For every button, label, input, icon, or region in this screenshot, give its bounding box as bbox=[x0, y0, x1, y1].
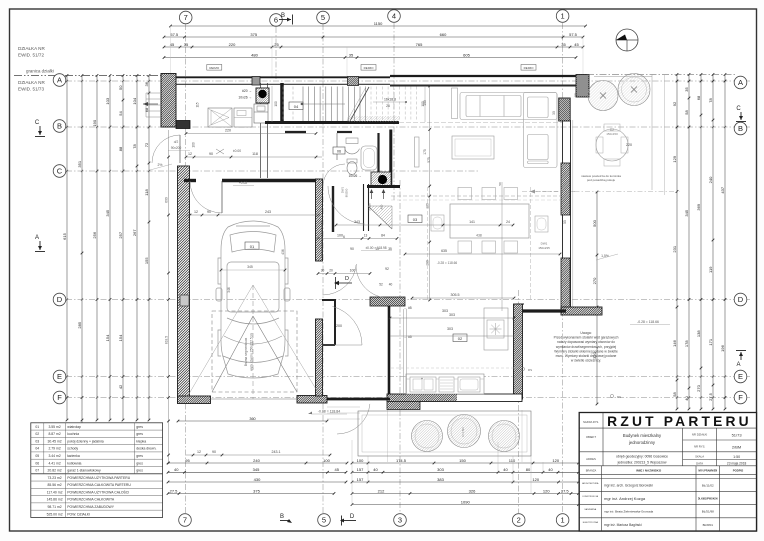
svg-text:35: 35 bbox=[388, 247, 392, 251]
tree right 1 bbox=[588, 81, 618, 111]
svg-text:57.5: 57.5 bbox=[170, 32, 179, 37]
grid bubble E left bbox=[53, 370, 66, 383]
svg-text:D: D bbox=[350, 514, 355, 520]
svg-text:345: 345 bbox=[105, 209, 110, 216]
dim 12 90 243 row below garage bbox=[186, 454, 330, 456]
svg-text:68: 68 bbox=[144, 107, 149, 112]
svg-text:90: 90 bbox=[350, 247, 354, 251]
svg-text:72: 72 bbox=[144, 142, 149, 147]
svg-text:58: 58 bbox=[672, 392, 677, 397]
wall below fireplace y186 bbox=[367, 185, 400, 188]
svg-text:6: 6 bbox=[343, 235, 345, 239]
svg-text:27.5: 27.5 bbox=[561, 488, 570, 493]
svg-text:175: 175 bbox=[423, 149, 427, 155]
svg-text:190: 190 bbox=[92, 119, 97, 126]
svg-text:150x235: 150x235 bbox=[538, 246, 550, 250]
svg-text:157: 157 bbox=[357, 467, 364, 472]
svg-text:#20: #20 bbox=[379, 204, 383, 209]
svg-text:27.5: 27.5 bbox=[708, 392, 713, 401]
axis line C bbox=[66, 170, 480, 172]
svg-text:2/BM: 2/BM bbox=[732, 445, 741, 450]
axis line 1 bbox=[562, 23, 564, 513]
bathroom toilet bbox=[347, 162, 357, 175]
svg-text:120: 120 bbox=[543, 488, 550, 493]
svg-text:E: E bbox=[738, 372, 743, 381]
svg-text:EWID. 51/72: EWID. 51/72 bbox=[18, 53, 44, 58]
boiler room label box 06 bbox=[333, 147, 345, 154]
coffee table bbox=[452, 136, 494, 159]
svg-text:1: 1 bbox=[561, 12, 565, 21]
top wall window pier at axis 5 bbox=[348, 77, 359, 86]
svg-text:KONSTRUKCJA: KONSTRUKCJA bbox=[583, 495, 599, 498]
svg-text:196: 196 bbox=[720, 344, 725, 351]
svg-text:369: 369 bbox=[696, 203, 701, 210]
svg-text:51/73: 51/73 bbox=[732, 433, 743, 438]
top dimension row 57.5 375 660 bbox=[164, 36, 583, 38]
svg-text:351: 351 bbox=[77, 160, 82, 167]
svg-text:20.82 m2: 20.82 m2 bbox=[48, 469, 62, 473]
right terrace dashed line y191 bbox=[522, 191, 680, 193]
right exterior wall with windows bbox=[562, 120, 564, 311]
svg-text:RS: RS bbox=[528, 368, 532, 372]
svg-text:119: 119 bbox=[708, 266, 713, 273]
svg-text:90: 90 bbox=[209, 152, 213, 156]
right wall solid pier 1 bbox=[561, 163, 570, 215]
svg-text:345: 345 bbox=[684, 209, 689, 216]
svg-text:257: 257 bbox=[118, 231, 123, 238]
svg-text:4.41 m2: 4.41 m2 bbox=[48, 461, 60, 465]
svg-text:303: 303 bbox=[449, 313, 455, 317]
svg-text:należy dopasować wymiary otwor: należy dopasować wymiary otworów do bbox=[557, 340, 615, 344]
svg-text:NR RYS.: NR RYS. bbox=[694, 445, 706, 449]
svg-text:deska drewn.: deska drewn. bbox=[136, 447, 156, 451]
svg-text:154: 154 bbox=[118, 334, 123, 341]
svg-text:ARCHITEKTURA: ARCHITEKTURA bbox=[582, 482, 599, 485]
svg-text:345: 345 bbox=[247, 265, 253, 269]
kitchen unit below chimney bbox=[254, 104, 268, 123]
svg-text:granica działki: granica działki bbox=[26, 69, 54, 74]
axis line E bbox=[66, 376, 750, 378]
svg-text:303: 303 bbox=[442, 309, 448, 313]
svg-text:100: 100 bbox=[357, 458, 364, 463]
svg-text:436: 436 bbox=[281, 249, 285, 255]
wardrobe with X bbox=[208, 108, 232, 127]
svg-text:mgr inż. Beata Zieleniewska-Gr: mgr inż. Beata Zieleniewska-Gromada bbox=[604, 510, 654, 514]
partition wall x263 kitchen-hall bbox=[260, 83, 262, 178]
svg-text:90x200: 90x200 bbox=[171, 146, 182, 150]
grid bubble F left bbox=[53, 391, 66, 404]
axis line 6 bbox=[275, 27, 277, 80]
svg-text:DZIAŁKA NR: DZIAŁKA NR bbox=[18, 46, 45, 51]
svg-text:765: 765 bbox=[416, 42, 423, 47]
right wall solid pier 2 bbox=[561, 258, 570, 311]
terrace bottom outline bbox=[358, 411, 531, 456]
terrace bush 1 bbox=[412, 421, 443, 452]
living room label box 03 bbox=[408, 215, 422, 223]
svg-text:← #5: ← #5 bbox=[404, 306, 412, 310]
svg-text:06: 06 bbox=[35, 461, 39, 465]
svg-text:145.86 m2: 145.86 m2 bbox=[47, 498, 63, 502]
svg-text:7: 7 bbox=[183, 516, 187, 525]
bottom dimension row 157 40 303 40 80 40 bbox=[352, 471, 579, 473]
svg-text:1090: 1090 bbox=[461, 499, 471, 504]
svg-text:54: 54 bbox=[118, 111, 123, 116]
svg-text:78: 78 bbox=[132, 144, 137, 149]
RS outlet mark 1 bbox=[521, 367, 524, 370]
tree right 2 bbox=[618, 74, 650, 106]
svg-text:schody: schody bbox=[67, 447, 78, 451]
svg-text:C: C bbox=[35, 120, 40, 126]
fireplace black circle bbox=[378, 175, 387, 184]
bathroom right wall x390 bbox=[389, 130, 392, 187]
svg-text:5: 5 bbox=[322, 516, 326, 525]
section D marker in plan bbox=[337, 282, 352, 284]
svg-text:605: 605 bbox=[463, 52, 470, 57]
svg-text:-0.28 = 118.66: -0.28 = 118.66 bbox=[437, 261, 458, 265]
kitchen counter left edge bbox=[403, 309, 405, 394]
garage inner dims 345 346 bbox=[221, 269, 285, 271]
svg-text:6: 6 bbox=[274, 16, 278, 25]
grid bubble 6 top bbox=[270, 14, 283, 27]
vertical dim line x502 living bbox=[501, 182, 503, 311]
svg-text:68: 68 bbox=[696, 95, 701, 100]
svg-text:375: 375 bbox=[250, 32, 257, 37]
dining side chair right bbox=[535, 216, 548, 232]
right dimension line x725 bbox=[724, 75, 726, 410]
kitchen dashed work line bbox=[391, 367, 514, 369]
garage right exterior wall lower bbox=[316, 319, 323, 396]
dim 12 90 243 row above car bbox=[186, 214, 320, 216]
svg-text:220: 220 bbox=[626, 143, 632, 147]
hall-kitchen wall x336 bbox=[332, 186, 334, 232]
svg-text:231: 231 bbox=[672, 245, 677, 252]
svg-text:480: 480 bbox=[251, 52, 258, 57]
svg-text:4: 4 bbox=[392, 12, 396, 21]
bottom dimension row 157 383 120 bbox=[352, 481, 579, 483]
grid bubble 5 top bbox=[317, 11, 330, 24]
svg-text:12: 12 bbox=[188, 152, 192, 156]
ceiling opening dashed verticals bbox=[426, 187, 428, 300]
svg-text:muru. Wymiary stolarki drzwiow: muru. Wymiary stolarki drzwiowej podane bbox=[556, 354, 617, 358]
svg-text:B: B bbox=[281, 13, 285, 19]
svg-text:40: 40 bbox=[389, 283, 393, 287]
svg-text:NR DZIAŁKI: NR DZIAŁKI bbox=[692, 433, 708, 437]
svg-text:154: 154 bbox=[105, 334, 110, 341]
svg-text:+0.02: +0.02 bbox=[239, 181, 248, 185]
svg-text:90: 90 bbox=[207, 210, 211, 214]
bottom dimension row 1090 bbox=[352, 504, 579, 506]
hall dim row 100 13 84 bbox=[318, 238, 397, 240]
wc partition details bbox=[336, 133, 338, 160]
axis line B bbox=[66, 126, 750, 128]
wall below stairs bbox=[265, 121, 399, 124]
grid bubble 1 bottom bbox=[556, 514, 569, 527]
svg-text:120: 120 bbox=[426, 203, 430, 209]
svg-text:303: 303 bbox=[437, 467, 444, 472]
svg-text:A: A bbox=[57, 76, 62, 85]
bottom dimension row left 430 bbox=[168, 481, 346, 483]
svg-text:100: 100 bbox=[323, 458, 330, 463]
level mark X hall bbox=[216, 149, 224, 154]
kitchen right exterior wall bbox=[514, 304, 523, 399]
bathroom top wall bbox=[285, 131, 306, 133]
svg-text:92: 92 bbox=[385, 267, 389, 271]
svg-text:E: E bbox=[57, 372, 62, 381]
svg-text:118: 118 bbox=[144, 189, 149, 196]
living-kitchen step wall bbox=[520, 309, 566, 312]
svg-text:02: 02 bbox=[458, 336, 463, 341]
svg-text:B: B bbox=[280, 514, 284, 520]
kitchen bottom-left corner block bbox=[387, 402, 420, 410]
svg-text:78: 78 bbox=[708, 98, 713, 103]
svg-text:360: 360 bbox=[249, 417, 255, 421]
svg-text:A: A bbox=[35, 235, 39, 241]
kitchen doorway arc bbox=[356, 265, 389, 298]
svg-text:635: 635 bbox=[441, 249, 447, 253]
svg-text:40: 40 bbox=[373, 467, 378, 472]
svg-text:1:50: 1:50 bbox=[733, 455, 740, 459]
svg-text:212: 212 bbox=[378, 488, 385, 493]
svg-text:-0.08 = 118.84: -0.08 = 118.84 bbox=[318, 410, 340, 414]
svg-text:C: C bbox=[736, 106, 741, 112]
svg-text:PODPIS: PODPIS bbox=[733, 469, 744, 473]
bottom dimension row left 40 345 45 bbox=[168, 471, 346, 473]
svg-text:30: 30 bbox=[321, 269, 325, 273]
svg-text:438: 438 bbox=[476, 234, 482, 238]
living room bottom-right wall bbox=[561, 307, 602, 315]
window label REIMO 1 bbox=[207, 65, 222, 71]
svg-text:270: 270 bbox=[592, 277, 597, 284]
svg-text:POWIERZCHNIA CAŁKOWITA: POWIERZCHNIA CAŁKOWITA bbox=[67, 498, 115, 502]
svg-text:mgr inż. arch. Grzegorz Borows: mgr inż. arch. Grzegorz Borowski bbox=[604, 484, 653, 488]
svg-text:13: 13 bbox=[375, 247, 379, 251]
svg-text:3.55 m2: 3.55 m2 bbox=[48, 425, 60, 429]
hall outside steps bbox=[327, 406, 360, 408]
vertical dim line x168 garage left bbox=[168, 130, 170, 463]
svg-text:100: 100 bbox=[337, 234, 343, 238]
grid bubble C left bbox=[53, 165, 66, 178]
svg-text:ADRES: ADRES bbox=[586, 457, 596, 461]
garage bottom exterior wall bbox=[178, 396, 211, 404]
window label REIMO 3 bbox=[521, 65, 536, 71]
svg-text:95: 95 bbox=[185, 458, 190, 463]
svg-text:łazienka: łazienka bbox=[67, 454, 80, 458]
svg-text:40: 40 bbox=[548, 467, 553, 472]
svg-text:DATA: DATA bbox=[696, 462, 703, 466]
svg-text:12: 12 bbox=[197, 450, 201, 454]
terrace bush 2 bbox=[448, 415, 481, 448]
svg-text:3.44 m2: 3.44 m2 bbox=[48, 454, 60, 458]
svg-text:100: 100 bbox=[191, 142, 195, 148]
svg-text:303: 303 bbox=[447, 327, 453, 331]
svg-text:150: 150 bbox=[459, 458, 466, 463]
axis line F bbox=[66, 397, 750, 399]
living room corner sofa bbox=[460, 93, 557, 168]
svg-text:NAZWA RYS.: NAZWA RYS. bbox=[583, 420, 599, 424]
svg-text:100: 100 bbox=[350, 269, 356, 273]
kitchen island bbox=[484, 308, 508, 350]
kitchen upper cabinets dashed bbox=[391, 195, 560, 197]
room schedule table bbox=[31, 423, 163, 518]
svg-text:07: 07 bbox=[35, 469, 39, 473]
svg-text:85.56 m2: 85.56 m2 bbox=[48, 483, 62, 487]
dims right of dining 635 bbox=[405, 253, 560, 255]
svg-text:171: 171 bbox=[708, 338, 713, 345]
svg-text:285: 285 bbox=[77, 321, 82, 328]
terrace right side outline bbox=[587, 74, 737, 76]
svg-text:88: 88 bbox=[118, 146, 123, 151]
grid bubble D left bbox=[53, 293, 66, 306]
svg-text:IMIĘ I NAZWISKO: IMIĘ I NAZWISKO bbox=[636, 469, 662, 473]
svg-text:SANITARNA: SANITARNA bbox=[584, 508, 596, 511]
grid bubble 7 bottom bbox=[179, 514, 192, 527]
svg-text:NR UPRAWNIEŃ: NR UPRAWNIEŃ bbox=[698, 470, 717, 473]
svg-text:24: 24 bbox=[506, 220, 510, 224]
svg-text:383: 383 bbox=[437, 477, 444, 482]
svg-text:157: 157 bbox=[357, 477, 364, 482]
svg-text:120: 120 bbox=[552, 458, 559, 463]
axis line 2 bbox=[518, 290, 520, 513]
svg-text:A: A bbox=[738, 78, 743, 87]
garage parking envelope dashed bbox=[212, 311, 297, 392]
svg-text:01: 01 bbox=[250, 244, 255, 249]
fridge snowflake bbox=[487, 320, 504, 338]
grid bubble B left bbox=[53, 120, 66, 133]
svg-text:DL/0982/PWOK/06: DL/0982/PWOK/06 bbox=[698, 499, 719, 501]
svg-text:RZUT PARTERU: RZUT PARTERU bbox=[607, 414, 752, 429]
top dimension row 480 35 605 bbox=[164, 57, 576, 59]
svg-text:kuchnia: kuchnia bbox=[67, 432, 79, 436]
center dims 343 141 6 24 26 bbox=[327, 229, 513, 231]
grid bubble 1 top bbox=[556, 10, 569, 23]
svg-text:-0.28 = 118.66: -0.28 = 118.66 bbox=[637, 320, 659, 324]
grid bubble 2 bottom bbox=[512, 514, 525, 527]
svg-text:40: 40 bbox=[174, 467, 179, 472]
svg-text:58: 58 bbox=[684, 110, 689, 115]
svg-text:w świetle ościeżnicy.: w świetle ościeżnicy. bbox=[571, 359, 601, 363]
svg-text:35: 35 bbox=[349, 52, 354, 57]
svg-text:ELEKTRYCZNA: ELEKTRYCZNA bbox=[583, 521, 599, 524]
svg-text:27.5: 27.5 bbox=[170, 488, 179, 493]
kitchen left wall x390 lower bbox=[388, 300, 391, 394]
grid bubble 4 top bbox=[388, 10, 401, 23]
svg-text:F: F bbox=[57, 393, 62, 402]
svg-text:klepka: klepka bbox=[136, 439, 146, 443]
dining chairs bottom row bbox=[458, 241, 472, 253]
svg-text:104: 104 bbox=[132, 97, 137, 104]
svg-text:343: 343 bbox=[354, 220, 360, 224]
svg-text:220: 220 bbox=[225, 129, 231, 133]
dims kitchen 305.5 row2 bbox=[390, 335, 514, 337]
entry steps outside bbox=[146, 92, 161, 94]
svg-text:garaż 1-stanowiskowy: garaż 1-stanowiskowy bbox=[67, 469, 101, 473]
left dimension line x82 bbox=[81, 76, 83, 513]
svg-text:obręb geodezyjny: 0096 Gosowic: obręb geodezyjny: 0096 Gosowice bbox=[616, 455, 668, 459]
hall cabinet bbox=[234, 108, 252, 127]
chimney black circle bbox=[258, 90, 266, 98]
svg-text:05: 05 bbox=[35, 454, 39, 458]
garage door swing triangle bbox=[212, 316, 253, 392]
hall dim row 30 20 100 bbox=[318, 273, 370, 275]
svg-text:wymiarów drzwi/segmentowych, p: wymiarów drzwi/segmentowych, przyjętej bbox=[556, 345, 617, 349]
grid bubble A right bbox=[734, 76, 747, 89]
car body bbox=[216, 221, 290, 378]
garage door from hall arc bbox=[190, 181, 222, 213]
left dimension line x67 bbox=[66, 76, 68, 421]
garage left exterior wall bbox=[178, 166, 190, 403]
svg-text:REIMO: REIMO bbox=[364, 66, 375, 70]
svg-text:wym. otworu 250x212.5cm: wym. otworu 250x212.5cm bbox=[250, 333, 254, 371]
svg-text:30.45 m2: 30.45 m2 bbox=[48, 439, 62, 443]
svg-text:40: 40 bbox=[503, 467, 508, 472]
fireplace air arrow dashed bbox=[530, 191, 575, 193]
left band axis crossing ticks bbox=[66, 74, 68, 76]
svg-text:600: 600 bbox=[164, 197, 168, 203]
svg-text:90: 90 bbox=[212, 450, 216, 454]
svg-text:55: 55 bbox=[563, 220, 567, 224]
svg-text:jednorodzinny: jednorodzinny bbox=[628, 440, 656, 445]
left dimension line x123 bbox=[122, 76, 124, 421]
entry arrow bbox=[143, 103, 158, 105]
top exterior wall left part bbox=[161, 76, 390, 78]
grid bubble A left bbox=[53, 74, 66, 87]
north arrow bbox=[616, 29, 638, 51]
svg-text:180: 180 bbox=[426, 260, 430, 266]
hall terrace door arc bbox=[332, 306, 362, 345]
svg-text:01: 01 bbox=[35, 425, 39, 429]
garage left wall pilaster box bbox=[180, 295, 189, 306]
fireplace hatch box bbox=[371, 172, 391, 187]
dining side chair left bbox=[431, 215, 444, 231]
svg-text:pod posadzką pokoju: pod posadzką pokoju bbox=[587, 178, 616, 182]
svg-text:Przed wykonaniem stolarki wrót: Przed wykonaniem stolarki wrót garażowyc… bbox=[554, 336, 619, 340]
svg-text:7: 7 bbox=[184, 13, 188, 22]
svg-text:103: 103 bbox=[105, 97, 110, 104]
axis line 3 bbox=[399, 180, 401, 513]
kotlownia door arc bbox=[323, 264, 357, 295]
axis line 7 bbox=[185, 24, 187, 513]
svg-text:100: 100 bbox=[423, 100, 427, 106]
kitchen dishwasher lined bbox=[439, 377, 454, 392]
svg-text:220: 220 bbox=[229, 42, 236, 47]
svg-text:kotłownia: kotłownia bbox=[67, 461, 81, 465]
porch corner dark block bbox=[176, 121, 190, 129]
svg-text:03: 03 bbox=[413, 217, 418, 222]
kitchen sink bbox=[410, 377, 436, 392]
hall lower walls bbox=[322, 299, 336, 301]
svg-text:2: 2 bbox=[517, 516, 521, 525]
kitchen counter bottom bbox=[406, 374, 484, 394]
grid bubble 5 bottom bbox=[318, 514, 331, 527]
svg-text:POWIERZCHNIA UŻYTKOWA CAŁOŚCI: POWIERZCHNIA UŻYTKOWA CAŁOŚCI bbox=[67, 489, 129, 494]
svg-text:243.1: 243.1 bbox=[272, 450, 281, 454]
svg-text:wiatrołap: wiatrołap bbox=[67, 425, 81, 429]
svg-text:gres: gres bbox=[136, 425, 143, 429]
svg-text:03: 03 bbox=[35, 439, 39, 443]
svg-text:2.79 m2: 2.79 m2 bbox=[48, 447, 60, 451]
svg-text:40: 40 bbox=[684, 396, 689, 401]
svg-text:240: 240 bbox=[253, 458, 260, 463]
staircase walk line bbox=[300, 103, 345, 105]
svg-text:D: D bbox=[57, 295, 63, 304]
svg-text:141: 141 bbox=[469, 220, 475, 224]
svg-text:Uwaga:: Uwaga: bbox=[580, 331, 591, 335]
svg-text:1150: 1150 bbox=[374, 21, 383, 26]
svg-text:POW. DZIAŁKI: POW. DZIAŁKI bbox=[67, 512, 90, 516]
svg-text:42: 42 bbox=[118, 384, 123, 389]
round patio table bbox=[596, 129, 628, 161]
grid bubble E right bbox=[734, 370, 747, 383]
